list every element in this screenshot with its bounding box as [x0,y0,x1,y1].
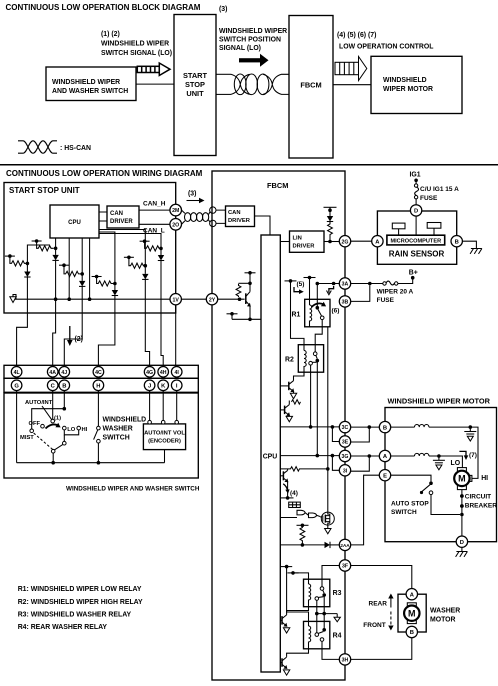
MOSFET Q3 [321,512,334,534]
svg-text:(4): (4) [290,490,298,497]
rain sensor box [377,211,456,264]
svg-text:(1): (1) [54,416,61,422]
svg-text:3F: 3F [342,564,348,570]
wiper 20A fuse and B+ [351,270,418,304]
svg-text:FBCM: FBCM [267,181,288,190]
windshield washer switch contacts [94,391,147,463]
svg-text:(1) (2): (1) (2) [101,31,120,38]
CPU U1 [50,205,99,238]
pins 4L 4A 4J 4C 4G 4H 4I [11,367,182,378]
legend: relay list [18,586,143,631]
pin B rain sensor [451,236,462,247]
wire CPU to 2AA with diode [280,542,339,548]
pins G C B H J K I [11,380,182,391]
svg-text:2M: 2M [172,208,179,214]
pull-up branch 6 (to pin 4H) [99,234,164,367]
pin 2Y [206,294,217,305]
wire 2G to rain sensor pin A [351,240,372,242]
svg-text:4A: 4A [49,370,56,376]
legend: HS-CAN symbol [18,141,91,153]
svg-text:R2: R2 [285,357,294,364]
wire LIN driver to 2G [324,241,339,243]
pin D rain sensor [410,205,421,216]
separator line [0,164,498,166]
washer motor box [398,594,426,632]
windshield wiper motor box [385,397,497,542]
FBCM edge terminal circles [210,207,216,213]
pull-up branch 1 (to pin 4A) [32,238,59,367]
pin 2AA [339,539,350,550]
svg-text:AND WASHER SWITCH: AND WASHER SWITCH [52,88,128,95]
svg-text:WINDSHIELD WIPER: WINDSHIELD WIPER [101,41,169,48]
microcomputer [387,235,445,245]
wiper motor pin D with ground [456,536,468,557]
svg-text:3A: 3A [342,282,349,288]
svg-text:B+: B+ [409,270,418,277]
svg-text:M: M [458,474,466,484]
pin 3E [339,436,350,447]
svg-text:R1: R1 [292,312,301,319]
svg-text:HI: HI [82,427,88,433]
wire pin E to 2AA [351,475,380,545]
svg-text:B: B [455,239,459,245]
svg-text:R4: R4 [333,633,342,640]
svg-text:LIN: LIN [293,236,302,242]
connector row 2 box [4,378,198,392]
relay R1 [292,284,331,352]
block: start stop unit [174,15,216,156]
svg-text:J: J [148,384,151,390]
svg-text:4G: 4G [146,370,153,376]
svg-text:4C: 4C [95,370,102,376]
signal flow arrow (7) [459,451,477,460]
svg-text:STOP: STOP [185,80,205,89]
svg-text:WINDSHIELD WIPER: WINDSHIELD WIPER [219,28,287,35]
pull-up branch 3 (to pin 4J) [59,238,85,367]
wire 3F to washer motor pin A [351,566,412,589]
pin 1V [170,294,181,305]
svg-text:CAN: CAN [228,210,241,216]
tie 3G to 3I [332,456,339,471]
IG1 supply and fuse [410,172,460,205]
svg-text:SWITCH POSITION: SWITCH POSITION [219,37,281,44]
auto/int vol encoder [143,391,185,463]
svg-text:(7): (7) [469,452,477,459]
wiper motor M [454,468,472,490]
CPU stub verticals to internal bus [68,238,70,299]
CPU bus bar (FBCM) [261,235,280,672]
circuit breaker [460,490,497,536]
wire CPU to LIN driver [280,241,289,243]
svg-text:LOW OPERATION CONTROL: LOW OPERATION CONTROL [339,44,433,51]
svg-text:(6): (6) [332,308,340,315]
svg-text:3C: 3C [342,425,349,431]
svg-text:LO: LO [451,460,461,467]
svg-text:WASHER: WASHER [103,426,133,433]
wire to pin 4I [175,305,177,367]
svg-text:4J: 4J [61,370,67,376]
CAN driver (SSU) [107,206,139,228]
pin A rain sensor [372,236,383,247]
pull-up branch 5 (to pin 4G) [99,230,150,367]
relay driver transistor Q5 (R4) [280,649,308,675]
svg-text:R1: WINDSHIELD WIPER LOW RELAY: R1: WINDSHIELD WIPER LOW RELAY [18,586,142,593]
svg-text:R3: R3 [333,590,342,597]
svg-text:3I: 3I [343,468,348,474]
svg-text:D: D [460,540,464,546]
svg-text:AUTO STOP: AUTO STOP [391,500,429,507]
svg-text:WINDSHIELD WIPER: WINDSHIELD WIPER [52,79,120,86]
wire CAN_L [139,223,170,225]
auto stop switch [391,475,460,516]
wire CPU to 3C [280,425,339,429]
svg-text:AUTO/INT: AUTO/INT [25,400,53,406]
pull-up branch 2 (to pin 4L) [5,245,50,367]
label (4)(5)(6)(7) low operation control [337,32,433,51]
pin 2M [170,204,182,216]
wires edge circles to CAN driver [216,210,226,223]
svg-text:FRONT: FRONT [363,622,385,629]
relay R1 output to MOSFET line [327,327,329,512]
2Y input transistor [218,271,261,321]
R2 outputs down to 3C and 3G rows [310,365,312,427]
svg-text:WINDSHIELD: WINDSHIELD [103,417,147,424]
svg-text:H: H [96,384,100,390]
pin 3C [339,421,350,432]
svg-text:LO: LO [67,427,76,433]
svg-text:SWITCH: SWITCH [103,435,130,442]
pin 3B [339,296,350,307]
svg-text:R2: WINDSHIELD WIPER HIGH RELA: R2: WINDSHIELD WIPER HIGH RELAY [18,599,143,606]
pin 2G [339,236,350,247]
signal flow arrow (6) [327,286,340,315]
svg-text:WIPER 20 A: WIPER 20 A [377,288,414,295]
relay driver transistor Q4 (R3) [280,607,308,633]
relay R2 [285,345,324,377]
wiper motor pin A [379,450,390,461]
pin 3A [339,278,350,289]
wire 3G to pin A [351,454,380,471]
svg-text:2Y: 2Y [209,297,216,303]
REAR / FRONT direction arrows [363,594,393,631]
wire R4 to 3H [322,641,339,659]
svg-text:DRIVER: DRIVER [110,219,133,225]
svg-text:C/U IG1 15 A: C/U IG1 15 A [420,186,459,193]
svg-text:REAR: REAR [369,600,388,607]
hatched signal arrow 1 [137,63,170,76]
svg-text:DRIVER: DRIVER [293,244,316,250]
wiper motor pin E [379,470,390,481]
wiper motor armature A winding [391,453,463,469]
svg-text:B: B [410,630,414,636]
pin 3F [339,560,350,571]
pin 3H [339,654,350,665]
FBCM box [212,171,345,680]
hatched component [289,502,301,507]
svg-text:MOTOR: MOTOR [430,617,456,624]
internal ground bus of start stop unit [10,295,170,303]
svg-text:CAN_H: CAN_H [143,200,166,207]
svg-text:MIST: MIST [20,435,34,441]
wire washer motor pin B to 3H [351,638,412,660]
svg-text:SIGNAL (LO): SIGNAL (LO) [219,45,261,52]
svg-text:RAIN SENSOR: RAIN SENSOR [389,250,445,259]
svg-text:3G: 3G [342,454,349,460]
pull-up diode and resistor at 2G [324,207,337,241]
svg-text:B: B [62,384,66,390]
block: windshield wiper and washer switch [46,67,136,101]
wire: switch to start stop unit [136,83,174,85]
svg-text:E: E [383,473,387,479]
wire 3F to relay R3 [322,566,339,587]
wire CPU to CAN driver [99,212,107,221]
twisted pair CAN to FBCM [182,210,211,224]
base resistor between drivers [292,400,301,404]
relay driver transistor Q1 [280,371,304,399]
wiper switch rotary contacts [17,391,88,463]
twisted pair: start stop unit to FBCM [216,74,289,95]
svg-text:4I: 4I [175,370,180,376]
solid black arrow [239,54,269,67]
relay R3 [304,579,342,611]
signal flow arrow (2) [67,326,83,346]
svg-text:IG1: IG1 [410,172,421,179]
svg-text:2O: 2O [172,222,179,228]
svg-text:2AA: 2AA [340,543,350,548]
svg-text:(4) (5) (6) (7): (4) (5) (6) (7) [337,32,376,39]
block: windshield wiper motor [371,56,462,113]
svg-text:WINDSHIELD: WINDSHIELD [383,77,427,84]
svg-text:M: M [408,608,416,618]
svg-text:(2): (2) [75,336,83,343]
wire 1V to 2Y [181,298,206,300]
svg-text:D: D [414,209,418,215]
svg-text:R4: REAR WASHER RELAY: R4: REAR WASHER RELAY [18,624,108,631]
switch internal ground bus [17,461,165,465]
svg-text:SWITCH SIGNAL (LO): SWITCH SIGNAL (LO) [101,50,172,57]
svg-text:2G: 2G [342,239,349,245]
tie 3C to 3E [332,427,339,442]
hatched open arrow 2 [335,57,367,81]
wire CAN_H [139,209,170,211]
svg-text:(3): (3) [188,191,196,198]
wire: FBCM to wiper motor [333,84,371,86]
R1 relay supply stubs [285,276,316,351]
svg-text:B: B [383,425,387,431]
wire to 3A [316,282,340,286]
svg-text:CPU: CPU [263,454,278,461]
svg-text:(ENCODER): (ENCODER) [148,439,181,445]
svg-text:HI: HI [481,475,488,482]
svg-text:WASHER: WASHER [430,608,460,615]
svg-text:START STOP UNIT: START STOP UNIT [9,186,80,195]
svg-text:CONTINUOUS LOW OPERATION WIRIN: CONTINUOUS LOW OPERATION WIRING DIAGRAM [6,169,203,178]
washer motor pin B [406,626,417,637]
svg-text:AUTO/INT VOL: AUTO/INT VOL [144,431,185,437]
signal flow arrow (3) [187,191,205,204]
pull-down resistor at 2AA [297,524,309,545]
wire 3C to pin B [351,425,380,442]
washer motor M [404,603,419,624]
svg-text:1V: 1V [173,297,180,303]
svg-text:SWITCH: SWITCH [391,509,417,516]
svg-text:3H: 3H [342,658,349,664]
svg-text:3E: 3E [342,440,349,446]
svg-text:4L: 4L [14,370,21,376]
R3/R4 contact junctions with ground [315,595,340,633]
svg-text:R3: WINDSHIELD WASHER RELAY: R3: WINDSHIELD WASHER RELAY [18,611,132,618]
svg-text:WINDSHIELD WIPER AND WASHER SW: WINDSHIELD WIPER AND WASHER SWITCH [66,486,200,493]
svg-text:G: G [14,384,19,390]
wire rain sensor pin B to ground [462,241,482,254]
pull-up branch 4 (to pin 4C) [92,232,119,367]
relay R4 [304,621,342,648]
rain sensor elements [392,216,441,235]
svg-text:(3): (3) [219,6,227,13]
svg-text:UNIT: UNIT [186,89,204,98]
label (1)(2) windshield wiper switch signal [101,31,172,57]
logic gates to MOSFET [280,510,321,517]
wire CPU to 3G [280,454,339,458]
svg-text:DRIVER: DRIVER [228,218,251,224]
svg-text:FUSE: FUSE [377,297,395,304]
pin 3G [339,450,350,461]
svg-text:MICROCOMPUTER: MICROCOMPUTER [390,239,441,245]
transistor (4) with base resistor [280,467,329,500]
svg-text:WINDSHIELD WIPER MOTOR: WINDSHIELD WIPER MOTOR [388,397,491,406]
label (3) switch position signal [219,6,287,52]
svg-text:CONTINUOUS LOW OPERATION BLOCK: CONTINUOUS LOW OPERATION BLOCK DIAGRAM [6,3,201,12]
svg-text:CPU: CPU [68,220,81,226]
start stop unit box [4,183,176,314]
pin 3I [339,465,350,476]
svg-text:FUSE: FUSE [420,195,438,202]
CAN driver (FBCM) [226,206,255,227]
svg-text:START: START [183,71,208,80]
relay driver transistor Q2 [280,401,292,422]
block: FBCM [289,16,333,159]
wire CAN driver to CPU [255,216,271,235]
svg-text:: HS-CAN: : HS-CAN [60,145,91,152]
connector row 1 box [4,365,198,378]
svg-text:CIRCUIT: CIRCUIT [465,494,491,501]
pin 2O [170,219,182,231]
svg-text:OFF: OFF [29,421,41,427]
windshield wiper and washer switch box [4,393,198,478]
LIN driver [290,231,325,252]
R3 supply stubs [281,565,309,626]
svg-text:3B: 3B [342,300,349,306]
svg-text:(5): (5) [297,281,305,288]
signal flow arrow (5) [294,281,304,294]
svg-text:BREAKER: BREAKER [465,502,497,509]
svg-text:4H: 4H [160,370,167,376]
washer motor pin A [406,589,417,600]
svg-text:WIPER MOTOR: WIPER MOTOR [383,86,433,93]
wiper motor armature B winding [391,425,478,479]
svg-text:CAN: CAN [110,211,123,217]
wiper motor pin B [379,421,390,432]
svg-text:FBCM: FBCM [300,81,321,90]
